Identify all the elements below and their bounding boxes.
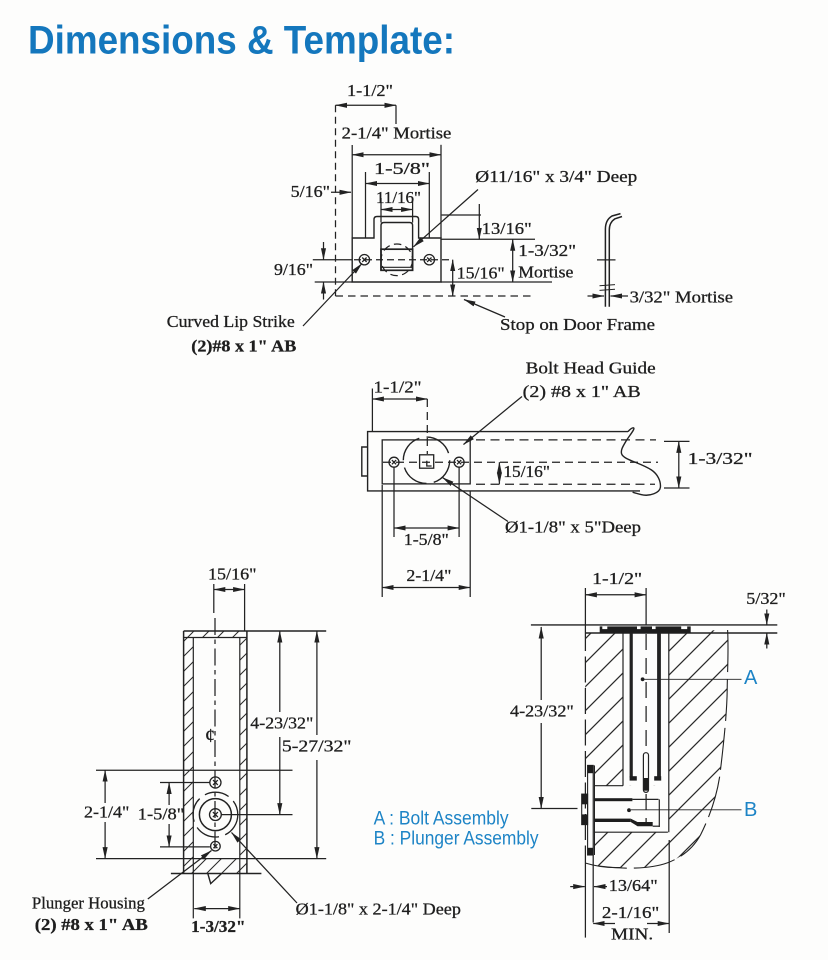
svg-text:5-27/32": 5-27/32" <box>282 737 352 756</box>
dim 1-5/8 <box>394 468 459 550</box>
dim 4-23/32 <box>250 631 313 815</box>
svg-text:13/16": 13/16" <box>482 219 532 238</box>
dim 1-3/32 bottom <box>191 909 245 936</box>
svg-text:5/32": 5/32" <box>746 589 786 608</box>
dim 13/64 <box>570 840 669 933</box>
B dot and leader <box>627 799 757 821</box>
dim 13/16 <box>441 204 535 239</box>
dim 9/16 <box>274 242 352 300</box>
svg-text:13/64": 13/64" <box>609 876 658 895</box>
frame left dashed boundary <box>584 588 586 938</box>
svg-text:B : Plunger Assembly: B : Plunger Assembly <box>374 829 539 850</box>
svg-text:A: A <box>744 667 758 689</box>
dim 3/32 mortise <box>588 288 734 307</box>
svg-text:4-23/32": 4-23/32" <box>250 713 313 732</box>
drill point vee <box>208 874 222 884</box>
inner wall lines <box>184 638 247 919</box>
bolt pin capsule <box>643 753 648 793</box>
svg-text:2-1/16": 2-1/16" <box>602 903 659 922</box>
svg-text:Bolt Head Guide: Bolt Head Guide <box>526 358 656 377</box>
dim 2-1/4 <box>382 485 470 597</box>
dim 1-1/2 <box>585 569 646 595</box>
dim 1-1/2 <box>372 378 427 432</box>
svg-text:Ø1-1/8" x 2-1/4" Deep: Ø1-1/8" x 2-1/4" Deep <box>296 900 461 919</box>
dim 5/32 <box>746 589 786 649</box>
label bolt head guide <box>464 358 656 444</box>
dim 1-5/8 <box>366 159 431 238</box>
strike side profile <box>605 214 622 307</box>
svg-text:Plunger Housing: Plunger Housing <box>32 894 145 913</box>
strike block <box>582 794 588 825</box>
svg-text:1-1/2": 1-1/2" <box>347 81 393 100</box>
face plate <box>588 765 594 855</box>
top screw <box>210 777 221 788</box>
svg-text:(2) #8 x 1" AB: (2) #8 x 1" AB <box>35 915 148 934</box>
plunger circles <box>193 792 238 837</box>
dim 2-1/4 left <box>84 770 129 858</box>
mortise pocket outline <box>594 633 668 855</box>
door edge hatch walls <box>184 631 247 874</box>
flange plate black <box>600 626 691 632</box>
svg-text:2-1/4" Mortise: 2-1/4" Mortise <box>342 123 452 142</box>
bolt tube thick walls <box>631 633 659 778</box>
plunger centerline right <box>222 814 293 816</box>
dim 15/16 top <box>208 564 257 631</box>
mortise dashed vertical line <box>335 105 337 296</box>
svg-text:Stop on Door Frame: Stop on Door Frame <box>500 315 655 334</box>
screw right <box>454 457 464 467</box>
mortise dashed extension top <box>476 439 656 441</box>
bottom screw extension <box>160 846 210 848</box>
label diameter 1-1/8 x 2-1/4 deep <box>232 833 461 919</box>
svg-text:1-3/32": 1-3/32" <box>688 449 753 468</box>
svg-text:1-1/2": 1-1/2" <box>592 569 642 588</box>
dim 5/16 <box>291 182 351 201</box>
svg-text:Mortise: Mortise <box>518 263 573 282</box>
svg-text:2-1/4": 2-1/4" <box>406 566 451 585</box>
svg-text:1-5/8": 1-5/8" <box>374 159 430 178</box>
svg-text:Ø11/16" x 3/4" Deep: Ø11/16" x 3/4" Deep <box>475 167 637 186</box>
svg-text:A : Bolt Assembly: A : Bolt Assembly <box>374 809 509 830</box>
bolt centerline dashed <box>645 588 647 823</box>
svg-text:1-3/32": 1-3/32" <box>518 241 576 260</box>
svg-text:1-5/8": 1-5/8" <box>404 530 449 549</box>
svg-text:¢: ¢ <box>205 725 215 747</box>
dim 11/16 <box>376 188 421 223</box>
svg-text:11/16": 11/16" <box>376 188 421 207</box>
svg-text:15/16": 15/16" <box>208 564 257 583</box>
svg-text:B: B <box>744 799 757 821</box>
screw left <box>389 457 399 467</box>
dim 4-23/32 <box>510 627 578 809</box>
door frame stop dashed line <box>336 295 534 297</box>
plunger tube horizontal <box>594 798 659 827</box>
svg-text:Ø1-1/8" x 5"Deep: Ø1-1/8" x 5"Deep <box>505 518 641 537</box>
strike plate outline <box>352 217 441 283</box>
strike lip cutout <box>381 223 413 271</box>
dim 2-1/4 mortise <box>342 123 452 238</box>
svg-text:1-5/8": 1-5/8" <box>138 804 185 823</box>
center dashed horizontal <box>383 461 658 463</box>
top screw extension <box>160 782 210 784</box>
dim 1-3/32 right <box>664 441 753 488</box>
bolt face tab <box>362 447 368 476</box>
svg-text:(2) #8 x 1" AB: (2) #8 x 1" AB <box>523 382 641 401</box>
profile break ticks <box>600 285 616 291</box>
svg-text:1-3/32": 1-3/32" <box>191 917 245 936</box>
svg-text:15/16": 15/16" <box>503 462 550 481</box>
dim 1-3/32 mortise <box>441 239 576 282</box>
door edge bar outline <box>368 428 661 495</box>
svg-text:1-1/2": 1-1/2" <box>374 378 422 397</box>
dim 2-1/16 min <box>593 903 669 943</box>
torn edge right <box>599 630 728 868</box>
A dot and leader <box>641 667 758 689</box>
frame hatch region <box>585 630 728 868</box>
label curved lip strike <box>167 264 362 356</box>
screw left <box>359 255 369 265</box>
label plunger housing <box>32 851 212 935</box>
mortise dashed extension bottom <box>476 483 655 485</box>
plate centerline dashed <box>354 259 453 261</box>
dim 15/16 mortise <box>453 260 505 296</box>
screw right <box>424 255 434 265</box>
svg-text:(2)#8 x 1" AB: (2)#8 x 1" AB <box>191 337 296 356</box>
label stop on door frame <box>464 300 655 334</box>
door edge outline <box>171 631 326 874</box>
dim 1-5/8 left <box>138 783 185 847</box>
mortise inner rectangle <box>382 440 470 484</box>
flange screw notches <box>602 626 687 629</box>
svg-text:3/32" Mortise: 3/32" Mortise <box>630 288 734 307</box>
dim 1-1/2 top <box>336 81 397 124</box>
bolt center square <box>420 455 434 468</box>
mortise channel white <box>585 626 669 855</box>
guide dashed circle <box>403 437 449 483</box>
frame top surface lines <box>531 625 777 633</box>
profile center tick <box>597 259 616 261</box>
svg-text:15/16": 15/16" <box>457 264 505 283</box>
bolt square hole <box>381 249 413 270</box>
bolt tube end hooks <box>630 776 662 780</box>
svg-text:2-1/4": 2-1/4" <box>84 802 129 821</box>
dim 15/16 <box>499 462 550 484</box>
vertical dash-dot centerline <box>214 618 216 853</box>
svg-text:4-23/32": 4-23/32" <box>510 701 574 720</box>
dim 5-27/32 <box>282 631 352 859</box>
svg-text:Dimensions & Template:: Dimensions & Template: <box>28 19 455 63</box>
housing bottom line <box>96 858 326 860</box>
label diameter 1-1/8 x 5 deep <box>443 478 642 537</box>
bottom screw <box>211 841 221 851</box>
svg-text:5/16": 5/16" <box>291 182 330 201</box>
housing top line <box>96 769 293 771</box>
svg-text:9/16": 9/16" <box>274 260 313 279</box>
torn edge bottom <box>585 863 620 868</box>
svg-text:MIN.: MIN. <box>611 924 653 943</box>
center dashed vertical <box>426 399 428 454</box>
bolt hole dashed circle <box>381 244 413 276</box>
label diameter 11/16 x 3/4 deep <box>414 167 638 247</box>
svg-text:Curved Lip Strike: Curved Lip Strike <box>167 312 295 331</box>
